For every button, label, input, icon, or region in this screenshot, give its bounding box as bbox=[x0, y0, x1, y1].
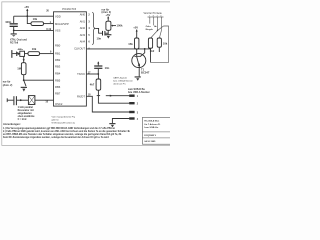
svg-text:BC547: BC547 bbox=[141, 70, 150, 74]
transistor Q1 bbox=[132, 49, 146, 68]
svg-text:10n: 10n bbox=[105, 66, 110, 70]
svg-text:4: 4 bbox=[157, 15, 158, 17]
potentiometer P1 bbox=[106, 21, 111, 30]
ground (stub4) bbox=[109, 123, 115, 127]
svg-text:Anmerkungen:: Anmerkungen: bbox=[3, 123, 21, 126]
svg-text:für 7 Achsen R.: für 7 Achsen R. bbox=[144, 123, 160, 126]
wire piezo to jumper bbox=[17, 99, 29, 101]
resistor R4 4k7 bbox=[90, 74, 101, 90]
node base bbox=[136, 48, 138, 50]
svg-text:8,19: 8,19 bbox=[46, 28, 51, 31]
jumper JP1 box bbox=[28, 96, 35, 105]
resistor R7 10k bbox=[157, 38, 168, 52]
terminal tick (R4 chain) bbox=[97, 95, 100, 97]
wire resonator tap down bbox=[23, 57, 25, 63]
svg-text:+5V: +5V bbox=[133, 26, 138, 30]
supply +5V arrow (pot) bbox=[105, 13, 110, 21]
wire pot to gnd bbox=[107, 30, 109, 34]
wire emitter down bbox=[138, 68, 140, 77]
pot wiper arrow bbox=[111, 25, 116, 27]
wire R4 down to row2 bbox=[98, 90, 129, 103]
wire VDD rail bbox=[14, 15, 54, 17]
node R3 bottom bbox=[23, 79, 25, 81]
svg-text:8: 8 bbox=[153, 15, 154, 17]
svg-text:PIC16C715: PIC16C715 bbox=[62, 7, 76, 11]
svg-text:UART-Signale: UART-Signale bbox=[113, 77, 128, 80]
connector pin ticks bbox=[149, 15, 162, 19]
wire tick1 down bbox=[149, 19, 151, 23]
svg-text:4k7: 4k7 bbox=[90, 82, 95, 86]
svg-text:AN3: AN3 bbox=[80, 33, 86, 37]
wire cap to TX node bbox=[97, 69, 99, 74]
node diag bbox=[157, 30, 158, 31]
svg-text:AN0: AN0 bbox=[80, 12, 86, 16]
resistor R5 15k bbox=[128, 38, 139, 49]
wire tick3 down bbox=[157, 19, 159, 30]
svg-text:AN1: AN1 bbox=[80, 19, 86, 23]
supply +5V arrow (TX cap) bbox=[97, 61, 99, 65]
wire R1 to MCLR bbox=[44, 23, 54, 25]
node collector bbox=[144, 48, 146, 50]
ground (under pot) bbox=[105, 34, 111, 38]
wire diag3 bbox=[158, 26, 164, 31]
supply +5V arrow (left) bbox=[24, 5, 29, 16]
svg-text:an RB7..RB0/LM4 eine Tastatur: an RB7..RB0/LM4 eine Tastatur oder Schal… bbox=[3, 133, 122, 136]
svg-text:RX/DT: RX/DT bbox=[77, 94, 85, 98]
svg-text:(Anm. 2): (Anm. 2) bbox=[3, 84, 13, 87]
node piezo bbox=[20, 99, 22, 101]
wire jumper to pin bbox=[35, 99, 54, 101]
resistor R6 2k2 bbox=[148, 38, 154, 53]
signal arrow (row1) bbox=[110, 95, 113, 97]
supply +5V arrow (R5) bbox=[133, 26, 138, 38]
capacitor C3 bbox=[94, 65, 109, 70]
switch S1 bbox=[24, 80, 26, 86]
piezo left stub bbox=[7, 99, 13, 101]
svg-text:RB1: RB1 bbox=[55, 51, 61, 55]
svg-text:RB4: RB4 bbox=[55, 72, 61, 76]
svg-text:1.) Die Versorgungsspannungsde: 1.) Die Versorgungsspannungsdetektor ggf… bbox=[3, 127, 116, 130]
svg-text:RB2: RB2 bbox=[55, 58, 61, 62]
svg-text:2.) Falls PB9 an GND gelenkt w: 2.) Falls PB9 an GND gelenkt wird, koenn… bbox=[3, 130, 131, 133]
resistor R3 1M bbox=[17, 63, 26, 75]
svg-text:Kein NC-Sonderanzeige nirgendw: Kein NC-Sonderanzeige nirgendwo werden, … bbox=[3, 136, 109, 139]
signal arrow bbox=[155, 26, 158, 28]
svg-text:RB6: RB6 bbox=[55, 85, 61, 89]
wire row1 bbox=[106, 95, 130, 97]
svg-text:bzw. USB-A Stecker: bzw. USB-A Stecker bbox=[113, 80, 133, 83]
wire cap to gnd bbox=[13, 27, 15, 33]
piezo plates bbox=[13, 96, 14, 105]
svg-text:RC-Teil: RC-Teil bbox=[10, 42, 19, 45]
pad row2 bbox=[129, 102, 134, 104]
svg-text:AN4: AN4 bbox=[80, 40, 86, 44]
node tap bbox=[23, 59, 25, 61]
svg-text:Vom marquebetonte Pty: Vom marquebetonte Pty bbox=[52, 116, 76, 119]
wire R6 bottom down bbox=[150, 48, 152, 62]
svg-text:C = 2nd: C = 2nd bbox=[18, 118, 27, 121]
node rail junction bbox=[26, 15, 28, 17]
wire diag1 bbox=[151, 31, 158, 38]
svg-text:6: 6 bbox=[161, 15, 162, 17]
svg-text:10k: 10k bbox=[33, 17, 38, 21]
wire RX row bbox=[86, 96, 129, 112]
ground (under C1) bbox=[11, 33, 17, 36]
resistor R1 10k bbox=[31, 17, 44, 26]
wire stub4 bbox=[112, 119, 129, 124]
svg-text:OSC2: OSC2 bbox=[55, 102, 63, 106]
wire tick2 down bbox=[153, 19, 155, 25]
svg-text:+5V: +5V bbox=[24, 5, 29, 9]
resonator X1 triangle bbox=[16, 52, 19, 56]
svg-text:RB5: RB5 bbox=[55, 79, 61, 83]
svg-text:10k: 10k bbox=[163, 42, 168, 46]
brace for AN pins bbox=[92, 12, 95, 44]
svg-text:RB0: RB0 bbox=[55, 44, 61, 48]
svg-text:böe USB-A Stecker: böe USB-A Stecker bbox=[128, 91, 150, 94]
svg-text:AN2: AN2 bbox=[80, 26, 86, 30]
wire TX row bbox=[86, 73, 98, 75]
wire node to RB pin bbox=[24, 79, 54, 81]
svg-text:direkt am PC: direkt am PC bbox=[113, 83, 126, 86]
svg-text:+5V: +5V bbox=[105, 13, 110, 17]
capacitor C1 100n bbox=[5, 20, 18, 27]
svg-text:Eingeb: Eingeb bbox=[146, 29, 154, 31]
pad row1 bbox=[129, 95, 134, 97]
svg-text:gibt frei: gibt frei bbox=[52, 119, 60, 122]
wire right edge down bbox=[151, 26, 169, 62]
wire MCLR pullup bbox=[27, 16, 31, 23]
svg-text:10k: 10k bbox=[32, 47, 37, 51]
ground (under S1) bbox=[21, 87, 27, 92]
resonator X1 plate bbox=[11, 50, 12, 58]
svg-text:VSS: VSS bbox=[55, 29, 61, 33]
wire diag2 bbox=[160, 31, 162, 38]
svg-text:RB3: RB3 bbox=[55, 65, 61, 69]
svg-text:W Windows98 selten da: W Windows98 selten da bbox=[52, 122, 76, 125]
svg-text:4MHz: 4MHz bbox=[18, 48, 23, 51]
svg-text:15k: 15k bbox=[128, 42, 133, 46]
svg-text:ECQ5985 V: ECQ5985 V bbox=[144, 135, 156, 137]
resistor R2 10k bbox=[28, 47, 40, 56]
wire R3 to node bbox=[23, 75, 25, 81]
svg-text:100k: 100k bbox=[117, 24, 123, 28]
wire brace apex to cap bbox=[96, 28, 102, 33]
piezo left tick bbox=[6, 98, 8, 102]
ground (emitter) bbox=[135, 76, 141, 80]
svg-text:bzw. USB-Ver: bzw. USB-Ver bbox=[144, 127, 158, 129]
svg-text:04.10.1995: 04.10.1995 bbox=[144, 140, 156, 143]
sheet border frame bbox=[2, 2, 170, 146]
op IC U1 box bbox=[54, 12, 87, 106]
wire R2 to OSC pin bbox=[40, 53, 54, 55]
svg-text:10n: 10n bbox=[97, 36, 102, 40]
node VSS tee bbox=[13, 30, 15, 32]
wire osc row bbox=[12, 53, 28, 55]
wire CLKOUT row bbox=[86, 48, 150, 50]
node TX bbox=[97, 73, 99, 75]
capacitor C2 bbox=[102, 31, 103, 36]
pad row4 bbox=[129, 117, 134, 119]
svg-text:VDD: VDD bbox=[55, 14, 61, 18]
svg-text:RC-058-A Mon: RC-058-A Mon bbox=[144, 120, 160, 123]
svg-text:7: 7 bbox=[149, 15, 150, 17]
wire cap to pot bottom bbox=[105, 32, 108, 34]
wire tick4 down bbox=[160, 19, 162, 30]
svg-text:RB7: RB7 bbox=[55, 92, 61, 96]
connector bus line bbox=[148, 16, 164, 18]
svg-text:TX/CK: TX/CK bbox=[77, 72, 85, 76]
svg-text:MCLR/VPP: MCLR/VPP bbox=[55, 22, 69, 26]
svg-text:CLKOUT: CLKOUT bbox=[74, 46, 85, 50]
resonator X1 body bbox=[20, 51, 25, 56]
pad row3 bbox=[129, 111, 134, 113]
svg-text:Oder: Oder bbox=[146, 26, 151, 28]
title block frame bbox=[142, 117, 171, 144]
wire VSS rail bbox=[14, 29, 54, 31]
wire cap branch bbox=[13, 16, 15, 23]
